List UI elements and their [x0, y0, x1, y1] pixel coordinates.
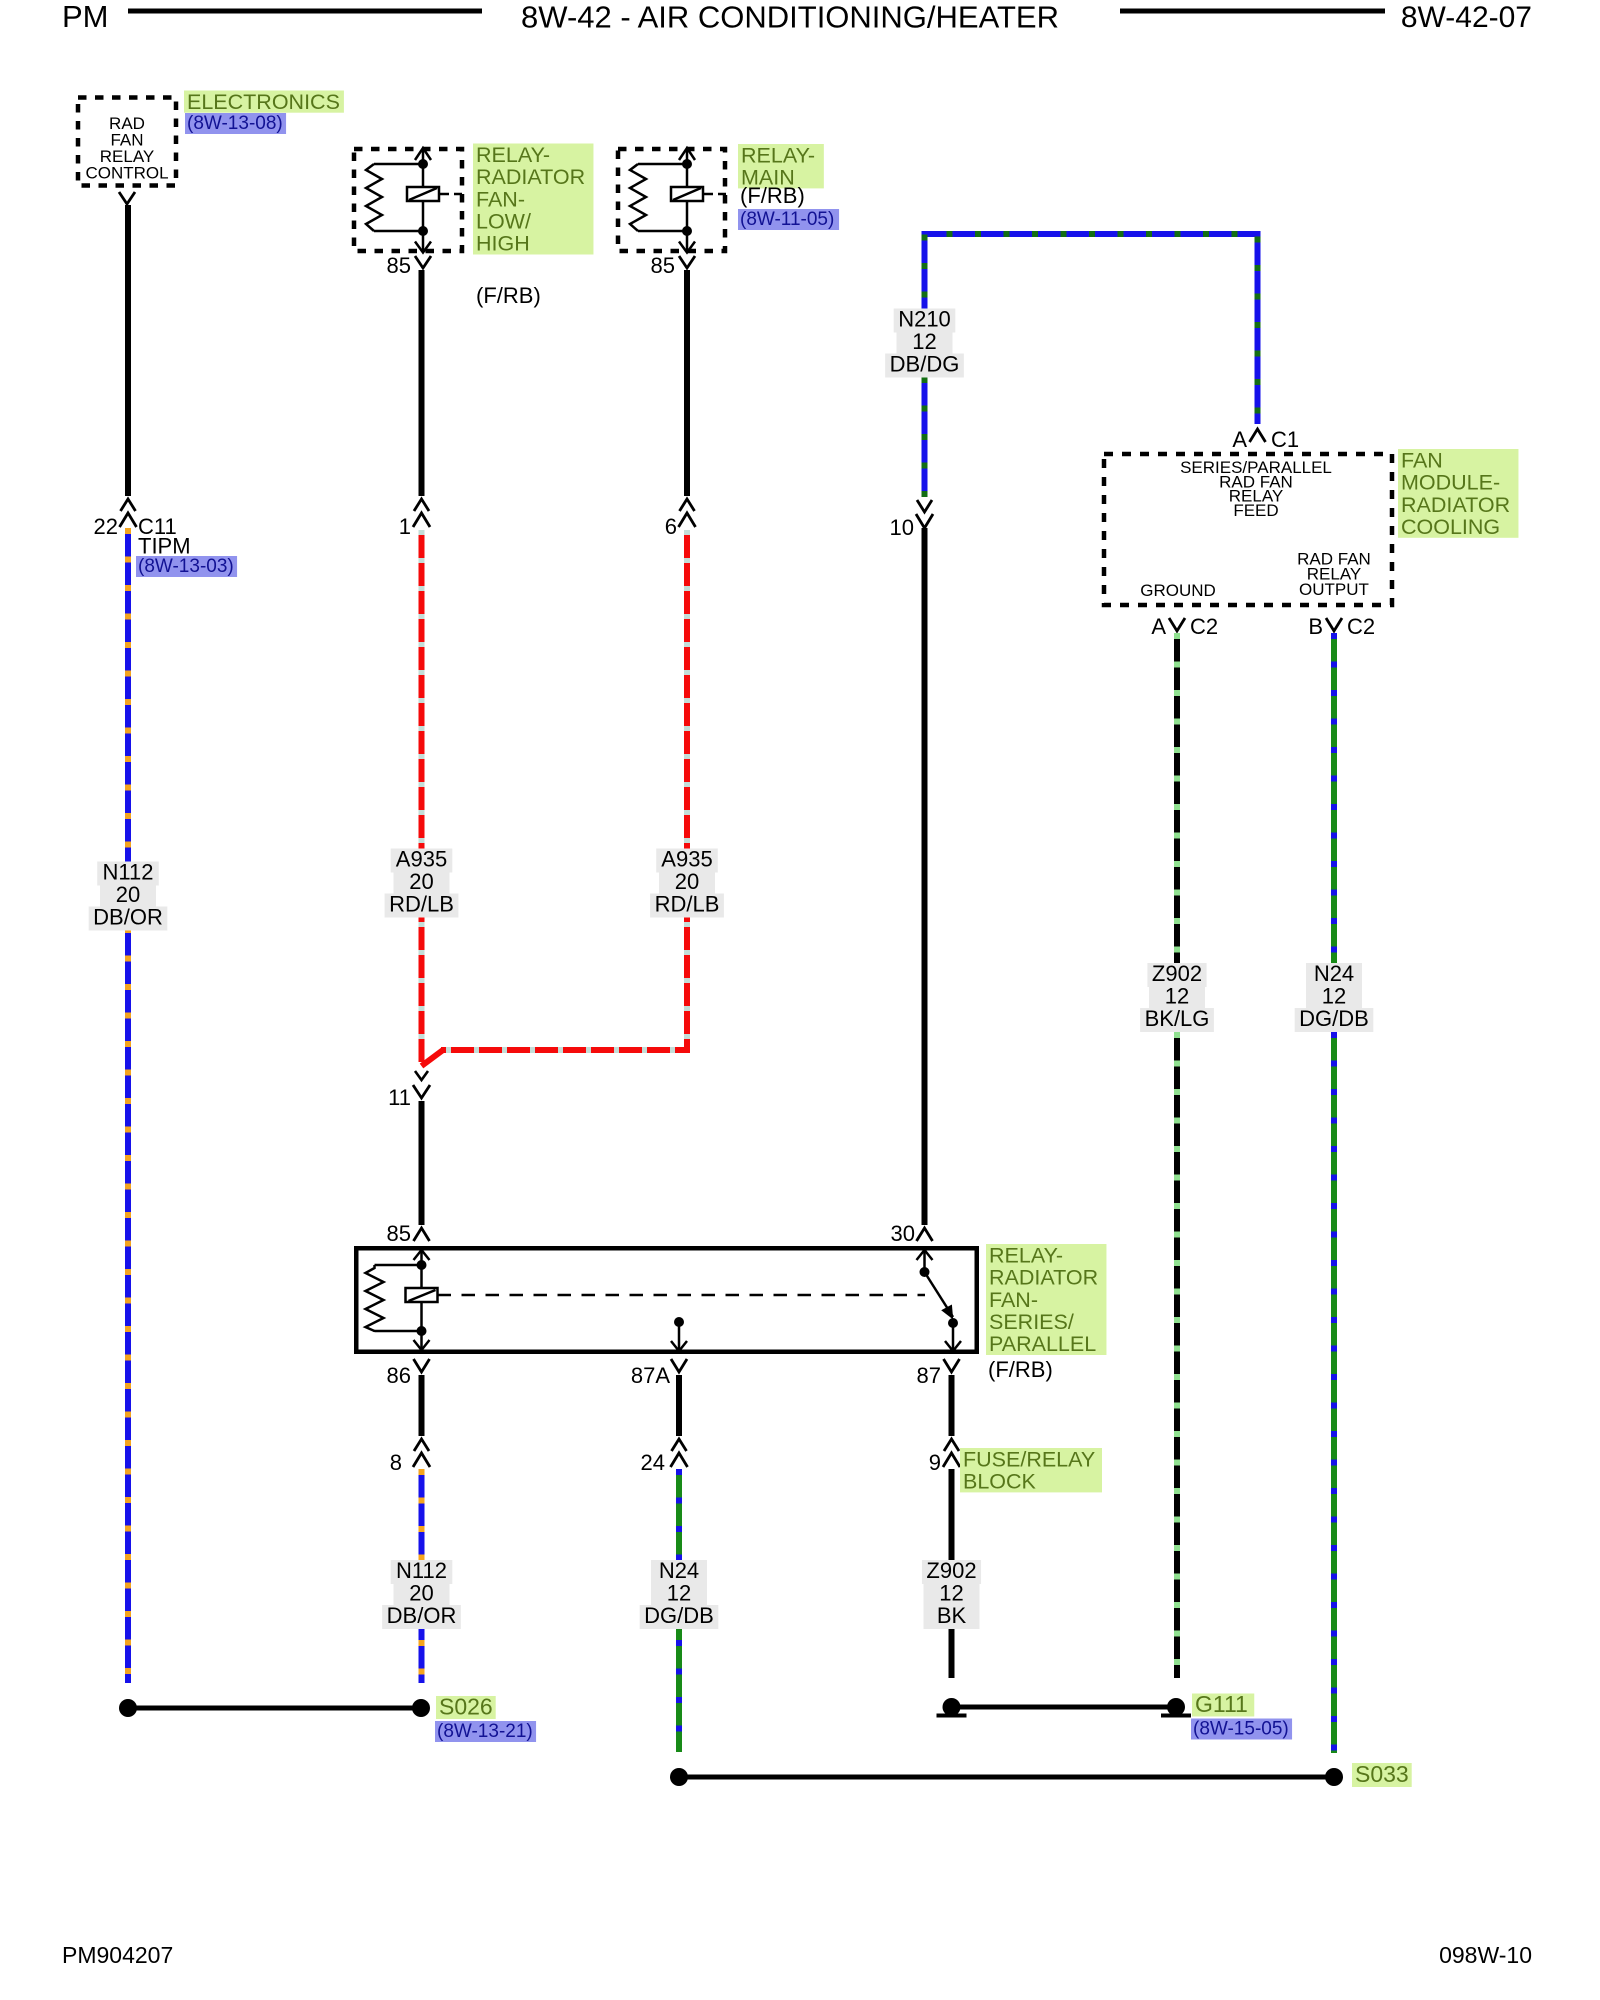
svg-text:B: B: [1308, 614, 1323, 639]
svg-text:N112: N112: [396, 1558, 447, 1583]
svg-text:FAN-: FAN-: [989, 1288, 1038, 1312]
svg-text:N112: N112: [103, 860, 154, 885]
svg-text:85: 85: [387, 253, 411, 278]
svg-text:SERIES/: SERIES/: [989, 1310, 1074, 1334]
svg-text:RELAY-: RELAY-: [476, 143, 550, 167]
svg-text:MODULE-: MODULE-: [1401, 471, 1500, 495]
svg-text:RD/LB: RD/LB: [655, 892, 720, 917]
svg-text:Z902: Z902: [1152, 961, 1202, 986]
svg-text:12: 12: [1322, 984, 1346, 1009]
svg-text:87A: 87A: [631, 1363, 670, 1388]
svg-text:PARALLEL: PARALLEL: [989, 1332, 1096, 1356]
svg-text:COOLING: COOLING: [1401, 515, 1500, 539]
svg-text:10: 10: [890, 515, 914, 540]
svg-text:30: 30: [891, 1221, 915, 1246]
svg-text:G111: G111: [1195, 1691, 1248, 1717]
svg-text:S033: S033: [1355, 1761, 1409, 1787]
svg-text:C2: C2: [1347, 614, 1375, 639]
svg-text:FAN-: FAN-: [476, 187, 525, 211]
svg-text:(F/RB): (F/RB): [740, 183, 805, 208]
svg-text:12: 12: [667, 1581, 691, 1606]
svg-text:ELECTRONICS: ELECTRONICS: [187, 90, 340, 114]
svg-text:FUSE/RELAY: FUSE/RELAY: [963, 1447, 1095, 1471]
svg-text:PM: PM: [62, 0, 109, 34]
svg-text:RADIATOR: RADIATOR: [476, 165, 585, 189]
svg-text:85: 85: [651, 253, 675, 278]
svg-text:22: 22: [94, 514, 118, 539]
svg-text:HIGH: HIGH: [476, 232, 530, 256]
svg-text:A935: A935: [661, 847, 712, 872]
svg-text:8: 8: [390, 1450, 402, 1475]
svg-text:(8W-11-05): (8W-11-05): [740, 209, 834, 230]
svg-text:1: 1: [399, 514, 411, 539]
svg-text:A: A: [1232, 427, 1247, 452]
svg-text:20: 20: [675, 869, 699, 894]
svg-text:BLOCK: BLOCK: [963, 1470, 1037, 1494]
svg-text:12: 12: [939, 1581, 963, 1606]
svg-text:(8W-13-08): (8W-13-08): [187, 113, 283, 134]
svg-text:FEED: FEED: [1233, 501, 1278, 520]
svg-text:RADIATOR: RADIATOR: [1401, 493, 1510, 517]
svg-text:RELAY-: RELAY-: [741, 143, 815, 167]
svg-text:(8W-13-03): (8W-13-03): [138, 556, 234, 577]
svg-text:86: 86: [387, 1363, 411, 1388]
svg-text:DG/DB: DG/DB: [644, 1603, 714, 1628]
svg-text:BK: BK: [937, 1603, 967, 1628]
svg-text:24: 24: [641, 1450, 665, 1475]
svg-text:FAN: FAN: [1401, 448, 1443, 472]
svg-text:11: 11: [388, 1085, 411, 1110]
svg-text:RD/LB: RD/LB: [389, 892, 454, 917]
svg-text:6: 6: [665, 514, 677, 539]
svg-text:PM904207: PM904207: [62, 1942, 173, 1968]
svg-text:85: 85: [387, 1221, 411, 1246]
svg-text:(F/RB): (F/RB): [476, 283, 541, 308]
svg-text:DG/DB: DG/DB: [1299, 1006, 1369, 1031]
svg-text:N24: N24: [1314, 961, 1354, 986]
svg-text:N210: N210: [898, 307, 951, 332]
svg-text:20: 20: [116, 882, 140, 907]
svg-text:8W-42-07: 8W-42-07: [1401, 1, 1532, 34]
svg-text:87: 87: [917, 1363, 941, 1388]
svg-text:CONTROL: CONTROL: [85, 164, 168, 183]
svg-text:12: 12: [1165, 984, 1189, 1009]
svg-text:DB/OR: DB/OR: [387, 1603, 457, 1628]
svg-text:098W-10: 098W-10: [1439, 1942, 1532, 1968]
svg-text:DB/DG: DB/DG: [890, 352, 960, 377]
svg-text:LOW/: LOW/: [476, 210, 531, 234]
svg-text:9: 9: [929, 1450, 941, 1475]
svg-text:DB/OR: DB/OR: [93, 905, 163, 930]
svg-text:N24: N24: [659, 1558, 699, 1583]
svg-text:GROUND: GROUND: [1140, 581, 1216, 600]
svg-text:(F/RB): (F/RB): [988, 1357, 1053, 1382]
svg-text:RADIATOR: RADIATOR: [989, 1266, 1098, 1290]
svg-text:A: A: [1151, 614, 1166, 639]
svg-text:Z902: Z902: [926, 1558, 976, 1583]
svg-text:12: 12: [912, 329, 936, 354]
svg-text:BK/LG: BK/LG: [1145, 1006, 1210, 1031]
svg-text:OUTPUT: OUTPUT: [1299, 580, 1369, 599]
svg-text:S026: S026: [439, 1694, 493, 1720]
svg-text:20: 20: [409, 1581, 433, 1606]
svg-text:(8W-15-05): (8W-15-05): [1193, 1719, 1289, 1740]
svg-text:RELAY-: RELAY-: [989, 1243, 1063, 1267]
svg-text:8W-42 - AIR CONDITIONING/HEATE: 8W-42 - AIR CONDITIONING/HEATER: [521, 0, 1059, 35]
svg-text:A935: A935: [396, 847, 447, 872]
svg-text:C2: C2: [1190, 614, 1218, 639]
svg-text:TIPM: TIPM: [138, 534, 191, 559]
svg-text:20: 20: [409, 869, 433, 894]
svg-text:(8W-13-21): (8W-13-21): [437, 1721, 533, 1742]
svg-text:C1: C1: [1271, 427, 1299, 452]
